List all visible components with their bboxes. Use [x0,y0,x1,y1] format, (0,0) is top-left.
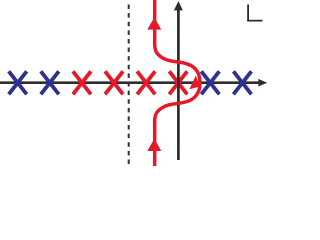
label L [247,5,262,22]
imaginary-axis arrowhead [174,1,183,10]
pole X7 blue [201,71,219,94]
contour path red [155,0,200,166]
contour bottom arrowhead [147,139,161,151]
pole X2 blue [41,71,59,94]
pole X8 blue [233,71,251,94]
pole X1 blue [9,71,27,94]
real axis [0,81,259,84]
dashed vertical line [128,5,130,167]
pole X4 red [105,71,123,94]
pole X5 red [137,71,155,94]
contour top arrowhead [147,17,161,29]
pole X6 red at origin [169,71,187,94]
complex-plane Landau contour figure [0,0,270,166]
real-axis arrowhead [258,79,267,87]
pole X3 red [73,71,91,94]
imaginary axis [177,9,180,160]
contour arc arrowhead [189,76,200,90]
